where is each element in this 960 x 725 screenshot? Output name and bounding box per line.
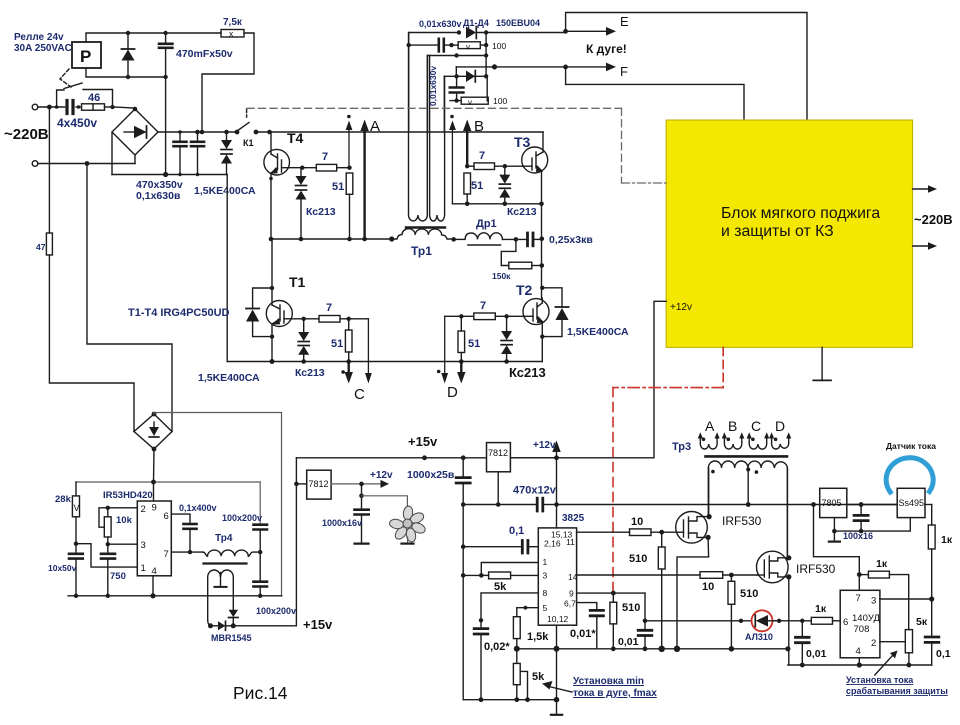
wire aux minus drop (165, 77, 167, 175)
svg-text:150к: 150к (492, 271, 511, 281)
svg-text:Т2: Т2 (516, 282, 533, 298)
row4 F output wire (456, 64, 565, 76)
svg-text:1к: 1к (941, 534, 953, 546)
E arrow (563, 14, 629, 36)
wire phase A to Tp1 done via rail (451, 237, 456, 242)
svg-text:Др1: Др1 (476, 218, 497, 230)
right column caps 100x200v (254, 482, 268, 554)
7805 gnd (829, 518, 840, 542)
Tp3 secondary (708, 461, 787, 557)
svg-text:750: 750 (110, 571, 126, 582)
svg-text:0,1x400v: 0,1x400v (179, 503, 217, 513)
zener pair Kc213 (T3) (499, 166, 510, 204)
wire N to bridge (38, 163, 135, 165)
svg-text:510: 510 (629, 553, 647, 565)
resistor 100 (2) (450, 76, 507, 107)
drive arrow B emitter (449, 115, 456, 204)
DC- drop to low rail (226, 175, 229, 362)
fuse 7,5k (221, 17, 244, 39)
winding C (747, 432, 770, 449)
svg-text:E: E (620, 14, 629, 29)
svg-text:A: A (370, 118, 380, 135)
drain riser 1 (708, 468, 710, 517)
capacitor 0,1 (pin 2,16) (461, 541, 538, 554)
svg-text:0,01: 0,01 (618, 636, 639, 648)
svg-text:7: 7 (164, 549, 169, 560)
resistor 1k (sensor out) (925, 505, 953, 600)
T3 emitter rail (452, 203, 541, 205)
resistor 7 (T1) (319, 302, 340, 322)
bottom rail right (788, 664, 932, 666)
svg-text:К дуге!: К дуге! (586, 42, 627, 56)
resistor 10 (1) (630, 516, 652, 536)
jog to LED row (644, 593, 646, 621)
resistor 10k (104, 508, 132, 544)
left verticals to Tp1 (427, 56, 429, 132)
svg-text:0,01*: 0,01* (570, 628, 596, 640)
ground stub below block (813, 347, 831, 380)
svg-text:Кс213: Кс213 (507, 206, 537, 218)
transil 1,5KE400CA (T1) (246, 288, 272, 337)
svg-text:7805: 7805 (822, 498, 842, 508)
regulator 7812 (2) (487, 443, 511, 505)
transistor T2 (523, 298, 549, 362)
node dots aux rail (126, 31, 130, 35)
svg-text:140УД: 140УД (852, 613, 880, 624)
rail y=648 to right (557, 648, 788, 650)
wire L (38, 106, 65, 108)
capacitor 10x50v (69, 544, 83, 596)
drive arrow D gate (437, 316, 448, 383)
source drop 2 (788, 577, 790, 665)
capacitor 100x16 (847, 502, 897, 533)
svg-text:100x200v: 100x200v (222, 513, 262, 523)
Tp1 primary (392, 229, 454, 239)
capacitor 1000x25v (456, 458, 470, 700)
DC+ rail (158, 131, 237, 133)
svg-text:11: 11 (566, 537, 575, 547)
pin1 feedback loop (481, 563, 538, 576)
transistor T3 (522, 132, 548, 204)
svg-text:470mFx50v: 470mFx50v (176, 48, 233, 60)
annotation min current (542, 676, 657, 699)
svg-text:0,01x630v: 0,01x630v (419, 19, 462, 29)
svg-text:1: 1 (141, 563, 146, 574)
transistor T4 (264, 132, 290, 239)
svg-text:Установка тока: Установка тока (846, 675, 914, 685)
svg-text:100: 100 (493, 96, 507, 106)
svg-text:+12v: +12v (670, 302, 692, 313)
resistor 51 (T4) (332, 173, 353, 194)
svg-text:708: 708 (854, 624, 870, 635)
svg-text:Датчик тока: Датчик тока (886, 441, 936, 451)
resistor 510 (pin9) (610, 593, 640, 649)
resistor 7 (T4) (316, 151, 336, 171)
svg-text:Тр3: Тр3 (672, 441, 691, 453)
svg-text:Т3: Т3 (514, 134, 531, 150)
lower rail (DC minus) (227, 361, 542, 363)
svg-text:0,01: 0,01 (806, 648, 827, 660)
IR53 ground rail (68, 595, 282, 597)
svg-text:28k: 28k (55, 494, 72, 505)
resistor 51 (T2) (458, 316, 480, 352)
IC 3825 (538, 528, 577, 625)
Tp4 core (204, 562, 247, 564)
pin 10,12 drop (556, 625, 558, 700)
svg-text:51: 51 (332, 181, 344, 193)
pot 5k protection (905, 616, 928, 665)
pin5 wire and resistor 1,5k (513, 606, 538, 649)
svg-text:51: 51 (331, 338, 343, 350)
F arrow (563, 63, 628, 79)
bypass contact of relay (57, 83, 113, 107)
svg-text:К1: К1 (243, 138, 254, 148)
resistor 510 (gate1) (629, 532, 665, 649)
svg-text:100: 100 (492, 41, 506, 51)
LED AL310 (752, 610, 780, 631)
block box (666, 120, 913, 347)
capacitor 4x450v (67, 101, 82, 114)
pin2 wire (880, 641, 905, 643)
svg-text:10x50v: 10x50v (48, 563, 77, 573)
svg-text:F: F (620, 64, 628, 79)
IC 140UD708 (840, 590, 880, 658)
gate wire T4 (289, 167, 316, 169)
wire N leg to aux bridge (87, 164, 172, 432)
ground row (834, 518, 910, 532)
pin6 wire and cap 0,1x400v (171, 514, 196, 552)
svg-text:+15v: +15v (303, 617, 333, 632)
svg-text:v: v (468, 98, 472, 107)
svg-text:MBR1545: MBR1545 (211, 633, 252, 643)
svg-text:и защиты от КЗ: и защиты от КЗ (721, 223, 834, 240)
pin8 wire and cap 0,02* (474, 593, 538, 700)
svg-text:150EBU04: 150EBU04 (496, 18, 540, 28)
source path 1 (677, 537, 709, 648)
svg-text:7: 7 (856, 593, 861, 604)
svg-text:IRF530: IRF530 (722, 514, 762, 528)
svg-text:7,5к: 7,5к (223, 17, 243, 28)
capacitor 0,01 (left) (638, 621, 652, 651)
wire fuse to +bus (202, 33, 254, 132)
switch K1 (235, 123, 259, 149)
svg-text:+12v: +12v (370, 470, 393, 481)
resistor 150k snubber (492, 239, 542, 281)
svg-text:Ss495: Ss495 (899, 498, 925, 508)
svg-text:0,1: 0,1 (509, 525, 524, 537)
svg-text:2: 2 (141, 504, 146, 515)
node line y482 (76, 481, 260, 483)
svg-text:1,5k: 1,5k (527, 631, 549, 643)
svg-text:4: 4 (856, 646, 861, 657)
pin4 drop (152, 576, 154, 596)
winding A (698, 432, 720, 449)
diode MBR1545 (208, 621, 236, 630)
resistor 51 (T1) (331, 319, 352, 352)
capacitor 470x12v (461, 498, 557, 511)
control ground rail (463, 699, 556, 701)
svg-text:9: 9 (152, 503, 157, 514)
emitter rail T4 / phase A (271, 238, 392, 240)
terminal L (32, 104, 38, 110)
svg-text:Тр1: Тр1 (411, 244, 432, 258)
+15v rail (296, 457, 653, 459)
terminal N (32, 161, 38, 167)
svg-text:~220В: ~220В (914, 212, 953, 227)
svg-text:Блок мягкого поджига: Блок мягкого поджига (721, 205, 880, 222)
svg-text:T1: T1 (289, 274, 306, 290)
svg-text:0,1x630в: 0,1x630в (136, 190, 181, 202)
relay P1 box (72, 42, 101, 68)
svg-text:8: 8 (543, 588, 548, 598)
transil 1,5KE400CA (T2) (542, 288, 568, 337)
regulator 7812 (1) (296, 470, 331, 499)
vertical link (485, 33, 487, 77)
svg-text:Установка min: Установка min (573, 676, 644, 687)
row3 tap (428, 53, 487, 57)
fan feed wire (362, 496, 408, 508)
output arrows 220V (913, 185, 937, 193)
svg-text:510: 510 (740, 588, 758, 600)
svg-text:Кс213: Кс213 (306, 206, 336, 218)
resistor 7 (T2) (474, 300, 496, 320)
capacitor 470x350v (174, 132, 187, 175)
svg-text:10: 10 (702, 581, 714, 593)
svg-text:4x450v: 4x450v (57, 116, 97, 130)
svg-text:100x16: 100x16 (843, 531, 873, 541)
svg-text:IR53HD420: IR53HD420 (103, 490, 153, 501)
zener pair Kc213 (T1) (298, 319, 309, 362)
svg-text:IRF530: IRF530 (796, 562, 836, 576)
capacitor 0,1x630v (191, 132, 204, 175)
DC- rail (111, 132, 113, 175)
svg-text:10: 10 (631, 516, 643, 528)
svg-text:7: 7 (326, 302, 332, 314)
phase B column (541, 204, 543, 298)
gate wire T1 (292, 318, 319, 320)
svg-text:0,1: 0,1 (936, 648, 951, 660)
svg-text:T1-T4 IRG4PC50UD: T1-T4 IRG4PC50UD (128, 307, 230, 319)
snubber cap 2 (450, 76, 464, 103)
pin9 wire (577, 592, 645, 594)
svg-text:10k: 10k (116, 515, 133, 526)
resistor 47 leg (36, 107, 134, 432)
transistor T1 (266, 239, 292, 362)
svg-text:1к: 1к (815, 603, 827, 615)
svg-text:6: 6 (164, 511, 169, 522)
fan (389, 505, 427, 542)
svg-text:Кс213: Кс213 (295, 367, 325, 379)
diode D1 (466, 27, 566, 39)
red dashed link (613, 347, 723, 591)
svg-text:C: C (751, 418, 761, 434)
+15v wire from MBR (233, 458, 296, 626)
svg-text:Тр4: Тр4 (215, 533, 233, 544)
svg-text:7: 7 (322, 151, 328, 163)
pin7 feed (814, 505, 860, 591)
E feed to block (566, 13, 807, 121)
row2: snubber cap + resistor 100 (407, 33, 507, 132)
pin4 drop (858, 658, 860, 665)
svg-text:5k: 5k (494, 581, 507, 593)
+12v node and arrow (510, 440, 560, 460)
capacitor 470mFx50v (159, 33, 172, 77)
svg-text:3825: 3825 (562, 513, 585, 524)
wire P bottom rail (86, 68, 166, 77)
pin7 wire (171, 551, 203, 553)
drive arrow C gate (365, 319, 372, 384)
svg-text:51: 51 (468, 338, 480, 350)
resistor 5k (pins 1-3) (479, 572, 538, 593)
svg-text:3: 3 (871, 596, 876, 607)
svg-text:1,5KE400СА: 1,5KE400СА (198, 372, 260, 384)
svg-text:0,25x3кв: 0,25x3кв (549, 234, 593, 246)
svg-text:V: V (74, 503, 80, 513)
Tp1 core (406, 226, 445, 228)
drive arrow D emitter (457, 362, 465, 384)
svg-text:1: 1 (543, 557, 548, 567)
svg-text:T4: T4 (287, 130, 304, 146)
svg-text:510: 510 (622, 602, 640, 614)
svg-text:срабатывания защиты: срабатывания защиты (846, 686, 948, 696)
svg-text:1000x16v: 1000x16v (322, 518, 362, 528)
aux bridge rectifier (134, 412, 172, 452)
row5: diode D2 (444, 71, 488, 83)
svg-text:51: 51 (471, 180, 483, 192)
DC bus after K1 (256, 131, 543, 133)
drive arrow C emitter (341, 362, 353, 384)
pin2 row wire (99, 508, 137, 527)
capacitor 750 (101, 544, 115, 596)
rectifier diode (Tp4) (229, 610, 239, 626)
svg-text:2: 2 (871, 638, 876, 649)
aux bridge bottom to IC node (153, 449, 156, 482)
svg-text:B: B (474, 118, 484, 135)
capacitor 0,25x3kv (528, 233, 542, 246)
sensor Ss495 (897, 488, 925, 517)
bridge rectifier VD1 (112, 107, 158, 155)
blue arc sensor (886, 458, 933, 492)
annotation protection current (846, 651, 948, 697)
fan ground (402, 537, 414, 544)
Tp4 secondary (208, 570, 234, 626)
capacitor 1000x16v (355, 484, 369, 544)
diode D aux (122, 33, 135, 77)
wire LED to 1k (773, 620, 812, 622)
svg-text:470x12v: 470x12v (513, 485, 557, 497)
svg-text:тока в дуге, fmax: тока в дуге, fmax (573, 688, 657, 699)
svg-text:4: 4 (152, 566, 157, 577)
svg-text:~220В: ~220В (4, 126, 49, 143)
row1 wire (409, 32, 460, 34)
drive arrow A gate (346, 115, 353, 168)
svg-text:7: 7 (480, 300, 486, 312)
transil 1,5KE400CA bus (221, 132, 232, 175)
winding B (722, 432, 745, 449)
svg-text:6: 6 (843, 617, 848, 628)
gate wire T3 (495, 165, 522, 167)
drive arrow A emitter (360, 120, 368, 240)
svg-text:3: 3 (543, 571, 548, 581)
svg-text:3: 3 (141, 540, 146, 551)
choke Dr1 (465, 233, 503, 245)
svg-text:30A 250VAC: 30A 250VAC (14, 43, 72, 54)
svg-text:1000x25в: 1000x25в (407, 469, 455, 481)
svg-text:100x200v: 100x200v (256, 606, 296, 616)
svg-text:6,7: 6,7 (564, 599, 576, 609)
transistor IRF530 (2) (757, 551, 792, 583)
resistor 7 (T3) (474, 150, 495, 170)
dashed relay link (60, 69, 71, 87)
svg-text:B: B (728, 418, 737, 434)
wire P top to aux+ rail (86, 33, 221, 42)
resistor 51 (T3) (464, 173, 483, 194)
pin 6,7 wire and cap 0,01* (577, 603, 604, 649)
Tp1 secondary loops (409, 33, 445, 221)
resistor 1k to pin6 (811, 603, 840, 624)
resistor 10 (2) (700, 572, 723, 593)
dashed control rectangle (247, 108, 666, 183)
wire to left rail (463, 574, 481, 576)
capacitor 0,01 right (796, 621, 810, 665)
winding D (769, 432, 791, 449)
pin3 wire (108, 543, 138, 545)
svg-text:14: 14 (568, 572, 578, 582)
IC IR53HD420 (137, 501, 171, 577)
regulator 7805 (820, 488, 847, 517)
svg-text:5: 5 (543, 603, 548, 613)
transformer Tp4 primary (203, 550, 260, 556)
svg-text:1к: 1к (876, 558, 888, 570)
svg-text:Рис.14: Рис.14 (233, 683, 288, 703)
aux bridge top wire to right column (154, 413, 282, 596)
svg-text:7: 7 (479, 150, 485, 162)
varistor 28k (55, 482, 80, 544)
+12v drop to IC (556, 458, 558, 528)
zener pair Kc213 (T4) (296, 168, 307, 239)
svg-text:5k: 5k (532, 671, 545, 683)
ground symbol (551, 700, 562, 715)
svg-text:Релле 24v: Релле 24v (14, 32, 64, 43)
svg-text:0,01x630v: 0,01x630v (428, 66, 438, 106)
svg-text:2,16: 2,16 (544, 539, 561, 549)
pin11 gate wire (577, 531, 630, 533)
svg-text:1,5KE400СА: 1,5KE400СА (567, 326, 629, 338)
zener pair Kc213 (T2) (501, 316, 512, 364)
svg-text:Кс213: Кс213 (509, 365, 546, 380)
svg-text:АЛ310: АЛ310 (745, 632, 773, 642)
svg-text:9: 9 (569, 589, 574, 599)
svg-text:P: P (80, 47, 91, 66)
drain riser 2 (786, 468, 788, 558)
Tp3 core (706, 455, 788, 458)
pin14 gate wire 2 (577, 574, 700, 576)
resistor 46 (82, 92, 105, 110)
+12v wire from block (654, 301, 666, 458)
svg-text:1,5KE400СА: 1,5KE400СА (194, 185, 256, 197)
pin1 jog wire (76, 544, 137, 567)
svg-text:0,02*: 0,02* (484, 641, 510, 653)
SECTION: 7812 regulator 1 and fan (294, 482, 299, 487)
+5 feed rail right (557, 504, 898, 506)
svg-text:7812: 7812 (488, 448, 508, 458)
+12v arrow (331, 470, 393, 488)
svg-text:+15v: +15v (408, 434, 438, 449)
capacitor 0,1 right (925, 599, 939, 665)
ground wire from 1,5k junction (517, 648, 557, 650)
gate wire T2 (495, 315, 523, 317)
svg-text:A: A (705, 418, 715, 434)
